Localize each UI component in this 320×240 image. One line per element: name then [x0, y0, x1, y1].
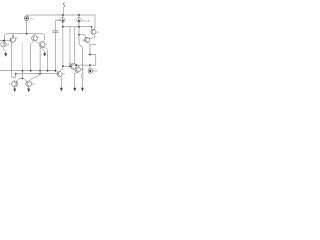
terminal OUTPUT: [88, 69, 92, 73]
transistor Q10: [70, 63, 76, 69]
node dot out lower: [89, 64, 91, 66]
wire out node horizontal: [76, 64, 95, 66]
node dot mid/CS1: [62, 26, 64, 28]
wire out to terminal: [89, 65, 91, 69]
transistor Q11 (output pull-down): [75, 65, 81, 73]
wire Q6 emitter to out node: [90, 44, 96, 46]
arrow Q1 collector current: [5, 53, 7, 56]
transistor Q4: [39, 41, 45, 47]
transistor Q1: [1, 41, 6, 53]
arrow Q8 emitter ground: [28, 88, 30, 92]
node dot IN-: [3, 40, 5, 42]
arrow Q9 emitter ground: [60, 78, 62, 91]
wire Q10 base: [63, 65, 72, 67]
wire bias stub up: [62, 8, 64, 15]
svg-text:100 µA: 100 µA: [82, 20, 90, 23]
node dot x70 base: [69, 65, 71, 67]
node dot H3a x22: [22, 70, 24, 72]
svg-text:Q9: Q9: [63, 74, 66, 76]
node dot H3a x40: [39, 70, 41, 72]
wire V+ corner drop right: [94, 15, 96, 29]
wire Q6 base line: [79, 35, 86, 39]
arrow RSC ground: [81, 80, 83, 91]
svg-text:Q4: Q4: [44, 44, 48, 46]
transistor Q2: [10, 37, 15, 45]
svg-text:Q1: Q1: [7, 45, 11, 47]
wire input rail 2: [4, 34, 44, 42]
wire Q4 inner drop: [40, 47, 41, 73]
wire mid verticals x77: [75, 27, 77, 65]
node dot rail/bias: [62, 14, 64, 16]
arrow Q7 emitter ground: [14, 87, 16, 92]
svg-text:VCC: VCC: [30, 16, 35, 21]
transistor Q8 (bottom left): [22, 74, 40, 88]
svg-text:Q11: Q11: [81, 68, 86, 70]
node dot mid/CS2: [78, 26, 80, 28]
transistor Q9 (second stage): [57, 66, 63, 78]
wire mid verticals x63: [62, 27, 64, 66]
node dot H3b x40: [39, 73, 41, 75]
terminal VCC: [24, 15, 28, 34]
node dot H3b x15.7: [15, 73, 17, 75]
wire mid verticals x70: [69, 27, 71, 67]
wire Q2 collector down: [11, 45, 15, 79]
arrow Q11 emitter ground: [74, 74, 76, 92]
wire Q2 emitter stub: [12, 34, 14, 37]
resistor RSC: [81, 65, 83, 80]
wire x90 branch down: [89, 45, 91, 55]
wire bottom rail H3b: [16, 73, 59, 75]
current source I2: [77, 15, 83, 65]
node dot rail/CS2: [78, 14, 80, 16]
svg-text:Q10: Q10: [69, 63, 73, 65]
node dot rail2: [26, 33, 28, 35]
wire Q4 collector down: [44, 48, 47, 71]
wire Q8 base line: [21, 71, 23, 79]
transistor Q6 (right second): [85, 37, 91, 44]
node dot H3a x55: [54, 70, 56, 72]
node dot Q6 base: [78, 34, 80, 36]
wire out loop right: [88, 55, 96, 66]
wire IN- line: [0, 39, 11, 41]
wire top rail V+: [27, 14, 95, 16]
arrow Q4 current: [44, 53, 46, 56]
current source I1: [61, 15, 66, 27]
svg-text:OUT: OUT: [93, 71, 98, 73]
node dot out upper: [89, 54, 91, 56]
wire Q3 base down: [30, 45, 32, 70]
wire mid rail: [63, 26, 92, 28]
transistor Q3: [31, 34, 39, 45]
svg-text:Q5: Q5: [96, 32, 100, 34]
label bias net: [63, 3, 65, 7]
wire bottom rail H3a: [0, 71, 58, 74]
node dot H3a x30: [30, 70, 32, 72]
node dot base joint: [22, 78, 24, 80]
node dot H3a x47: [47, 70, 49, 72]
wire Q4 emitter branch arrow: [42, 47, 45, 53]
svg-text:Q3: Q3: [36, 37, 40, 39]
svg-text:Q2: Q2: [15, 37, 19, 39]
node dot q11 collector: [76, 64, 78, 66]
node dot Q9 collector: [62, 65, 64, 67]
transistor Q7 (bottom far left): [12, 78, 22, 88]
svg-text:Q8: Q8: [32, 84, 36, 86]
capacitor Cc: [53, 21, 59, 71]
wire inner-left drop: [21, 43, 23, 71]
wire Q7 collector: [14, 74, 17, 78]
transistor Q5 (right top): [89, 27, 96, 39]
node dot mid/out-branch: [91, 26, 93, 28]
